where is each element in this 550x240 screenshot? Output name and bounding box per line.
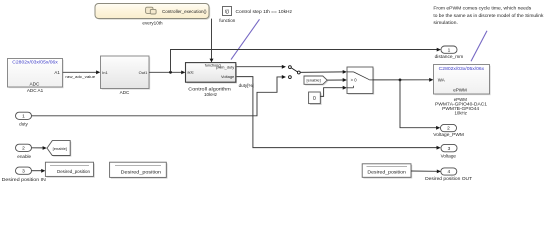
svg-text:Controll algorithm: Controll algorithm	[188, 86, 231, 91]
node junction on ePWM wire	[399, 79, 402, 82]
svg-text:WA: WA	[438, 77, 445, 82]
svg-text:[enable]: [enable]	[306, 78, 320, 83]
function-call wire to Control algorithm trigger	[210, 19, 214, 63]
wire raw_adc_value A1 -> In1	[63, 70, 101, 79]
wire branch to distance_mm outport	[171, 48, 441, 73]
f() function block	[219, 7, 236, 24]
svg-text:raw_adc_value: raw_adc_value	[65, 74, 96, 79]
wire From -> Switch input 2	[327, 78, 347, 82]
svg-text:0: 0	[313, 96, 316, 102]
svg-text:Voltage: Voltage	[441, 154, 457, 159]
svg-text:duty[%]: duty[%]	[239, 83, 254, 88]
wire constant 0 -> Switch input 3	[320, 86, 347, 97]
svg-text:adc: adc	[187, 70, 193, 75]
wire manual switch -> Switch input 1	[300, 70, 347, 74]
svg-text:3: 3	[22, 168, 25, 174]
outport 2 Voltage_PWM	[433, 124, 464, 137]
svg-text:Voltage: Voltage	[221, 74, 235, 79]
svg-text:every10th: every10th	[142, 21, 163, 26]
block ADC subsystem	[101, 56, 151, 95]
svg-text:ADC: ADC	[30, 82, 41, 87]
wire enable inport -> Goto	[32, 146, 47, 150]
svg-text:2: 2	[447, 126, 450, 132]
svg-text:1: 1	[448, 47, 451, 53]
constant 0 block	[309, 92, 322, 105]
svg-text:1: 1	[22, 113, 25, 119]
inport 1 duty	[16, 112, 32, 126]
inport 3 Desired position IN	[2, 167, 46, 182]
svg-text:pwm_duty: pwm_duty	[216, 65, 234, 70]
svg-text:Voltage_PWM: Voltage_PWM	[433, 132, 464, 137]
wire inport 3 -> Desired_position write	[32, 169, 46, 173]
outport 4 Desired position OUT	[425, 168, 472, 181]
svg-text:to be the same as in discrete: to be the same as in discrete model of t…	[433, 13, 544, 19]
svg-text:Desired position IN: Desired position IN	[2, 177, 46, 182]
svg-text:Desired_position: Desired_position	[367, 169, 406, 174]
svg-text:ADC A1: ADC A1	[27, 88, 44, 93]
svg-text:10kHz: 10kHz	[204, 92, 218, 97]
svg-text:Controller_execution(): Controller_execution()	[162, 9, 207, 14]
chart block every10th (Controller_execution)	[95, 4, 210, 26]
block ePWM	[434, 65, 491, 116]
svg-text:enable: enable	[17, 154, 31, 159]
svg-text:Control step 1th == 10kHz: Control step 1th == 10kHz	[236, 9, 293, 15]
svg-text:[enable]: [enable]	[53, 146, 67, 151]
block Control algorithm 10kHz	[186, 62, 238, 97]
From tag [enable]	[304, 76, 328, 86]
svg-text:distance_mm: distance_mm	[435, 54, 464, 59]
svg-text:In1: In1	[102, 70, 108, 75]
svg-text:f(): f()	[225, 9, 230, 14]
data store write Desired_position	[45, 162, 94, 177]
node junction on adc wire	[169, 71, 172, 74]
wire Voltage output -> Voltage outport	[237, 77, 441, 150]
annotation: From ePWM comes cycle time text	[433, 6, 544, 27]
svg-text:Out1: Out1	[139, 70, 148, 75]
svg-text:A1: A1	[54, 70, 60, 75]
svg-text:4: 4	[447, 169, 450, 175]
data store memory Desired_position	[110, 162, 168, 178]
outport 3 Voltage	[441, 144, 457, 158]
inport 2 enable	[16, 144, 32, 159]
annotation arrow (purple) to Control algorithm	[231, 19, 260, 59]
svg-text:C2802x/03x/05x/06x: C2802x/03x/05x/06x	[439, 66, 485, 71]
wire pwm_duty -> manual switch top	[237, 65, 287, 69]
outport 1 distance_mm	[435, 46, 464, 59]
switch U1	[347, 67, 374, 95]
wire branch junction -> Voltage_PWM outport	[400, 80, 440, 130]
svg-text:Desired_position: Desired_position	[57, 169, 91, 174]
svg-text:function: function	[219, 18, 236, 23]
wire duty inport -> manual switch bottom	[32, 75, 287, 116]
annotation arrow (purple) to ePWM	[471, 31, 487, 62]
wire Switch -> ePWM WA	[373, 78, 433, 82]
svg-text:C2802x/03x/05x/06x: C2802x/03x/05x/06x	[12, 60, 58, 65]
svg-text:Desired_position: Desired_position	[121, 169, 162, 174]
svg-text:2: 2	[22, 145, 25, 151]
svg-text:simulation.: simulation.	[433, 20, 458, 26]
svg-text:ePWM: ePWM	[453, 87, 467, 92]
Goto tag [enable]	[47, 141, 71, 157]
block ADC A1	[8, 59, 64, 93]
wire Out1 -> adc	[149, 71, 185, 75]
svg-text:ADC: ADC	[120, 90, 130, 95]
data store read Desired_position	[362, 164, 412, 179]
svg-text:10kHz: 10kHz	[454, 110, 466, 115]
manual switch	[289, 66, 301, 79]
svg-text:duty: duty	[19, 122, 28, 127]
svg-text:3: 3	[448, 146, 451, 152]
wire read -> outport 4	[411, 170, 441, 174]
svg-text:> 0: > 0	[351, 78, 358, 83]
svg-text:Desired position OUT: Desired position OUT	[425, 176, 472, 181]
svg-text:From ePWM comes cycle time, wh: From ePWM comes cycle time, which needs	[433, 6, 531, 12]
